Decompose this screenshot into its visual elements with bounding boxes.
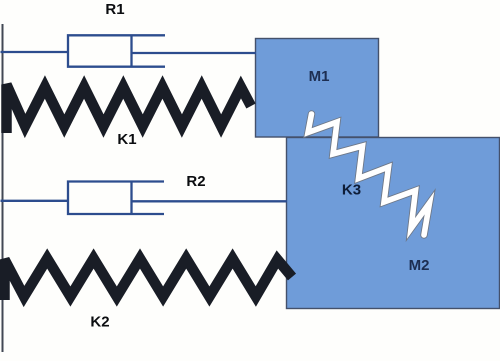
spring K3 — [308, 114, 430, 235]
label K1 — [117, 131, 136, 148]
mass M1 — [256, 39, 379, 138]
label M1 — [309, 68, 330, 85]
svg-text:R2: R2 — [186, 173, 205, 190]
wall — [2, 24, 4, 352]
wire: rod from piston R2 to mass M2 — [132, 200, 288, 202]
wire: rod from piston R1 to mass M1 — [132, 52, 257, 54]
cylinder of R1 — [68, 35, 165, 66]
svg-text:M2: M2 — [409, 257, 430, 274]
piston plate of R2 — [130, 182, 132, 215]
svg-text:K2: K2 — [90, 313, 109, 330]
label M2 — [409, 257, 430, 274]
label K2 — [90, 313, 109, 330]
svg-text:R1: R1 — [105, 1, 124, 18]
damper R1 — [1, 35, 257, 66]
piston plate of R1 — [130, 35, 132, 66]
wire: rod from wall to cylinder R1 — [1, 51, 69, 53]
damper R2 — [1, 182, 288, 215]
spring K2 — [5, 259, 293, 301]
label R1 — [105, 1, 124, 18]
svg-text:M1: M1 — [309, 68, 330, 85]
cylinder of R2 — [68, 182, 164, 215]
svg-text:K1: K1 — [117, 131, 136, 148]
svg-text:K3: K3 — [342, 181, 361, 198]
wire: rod from wall to cylinder R2 — [1, 200, 69, 202]
label R2 — [186, 173, 205, 190]
spring K1 — [7, 85, 252, 134]
label K3 — [342, 181, 361, 198]
mass M2 — [287, 138, 500, 309]
